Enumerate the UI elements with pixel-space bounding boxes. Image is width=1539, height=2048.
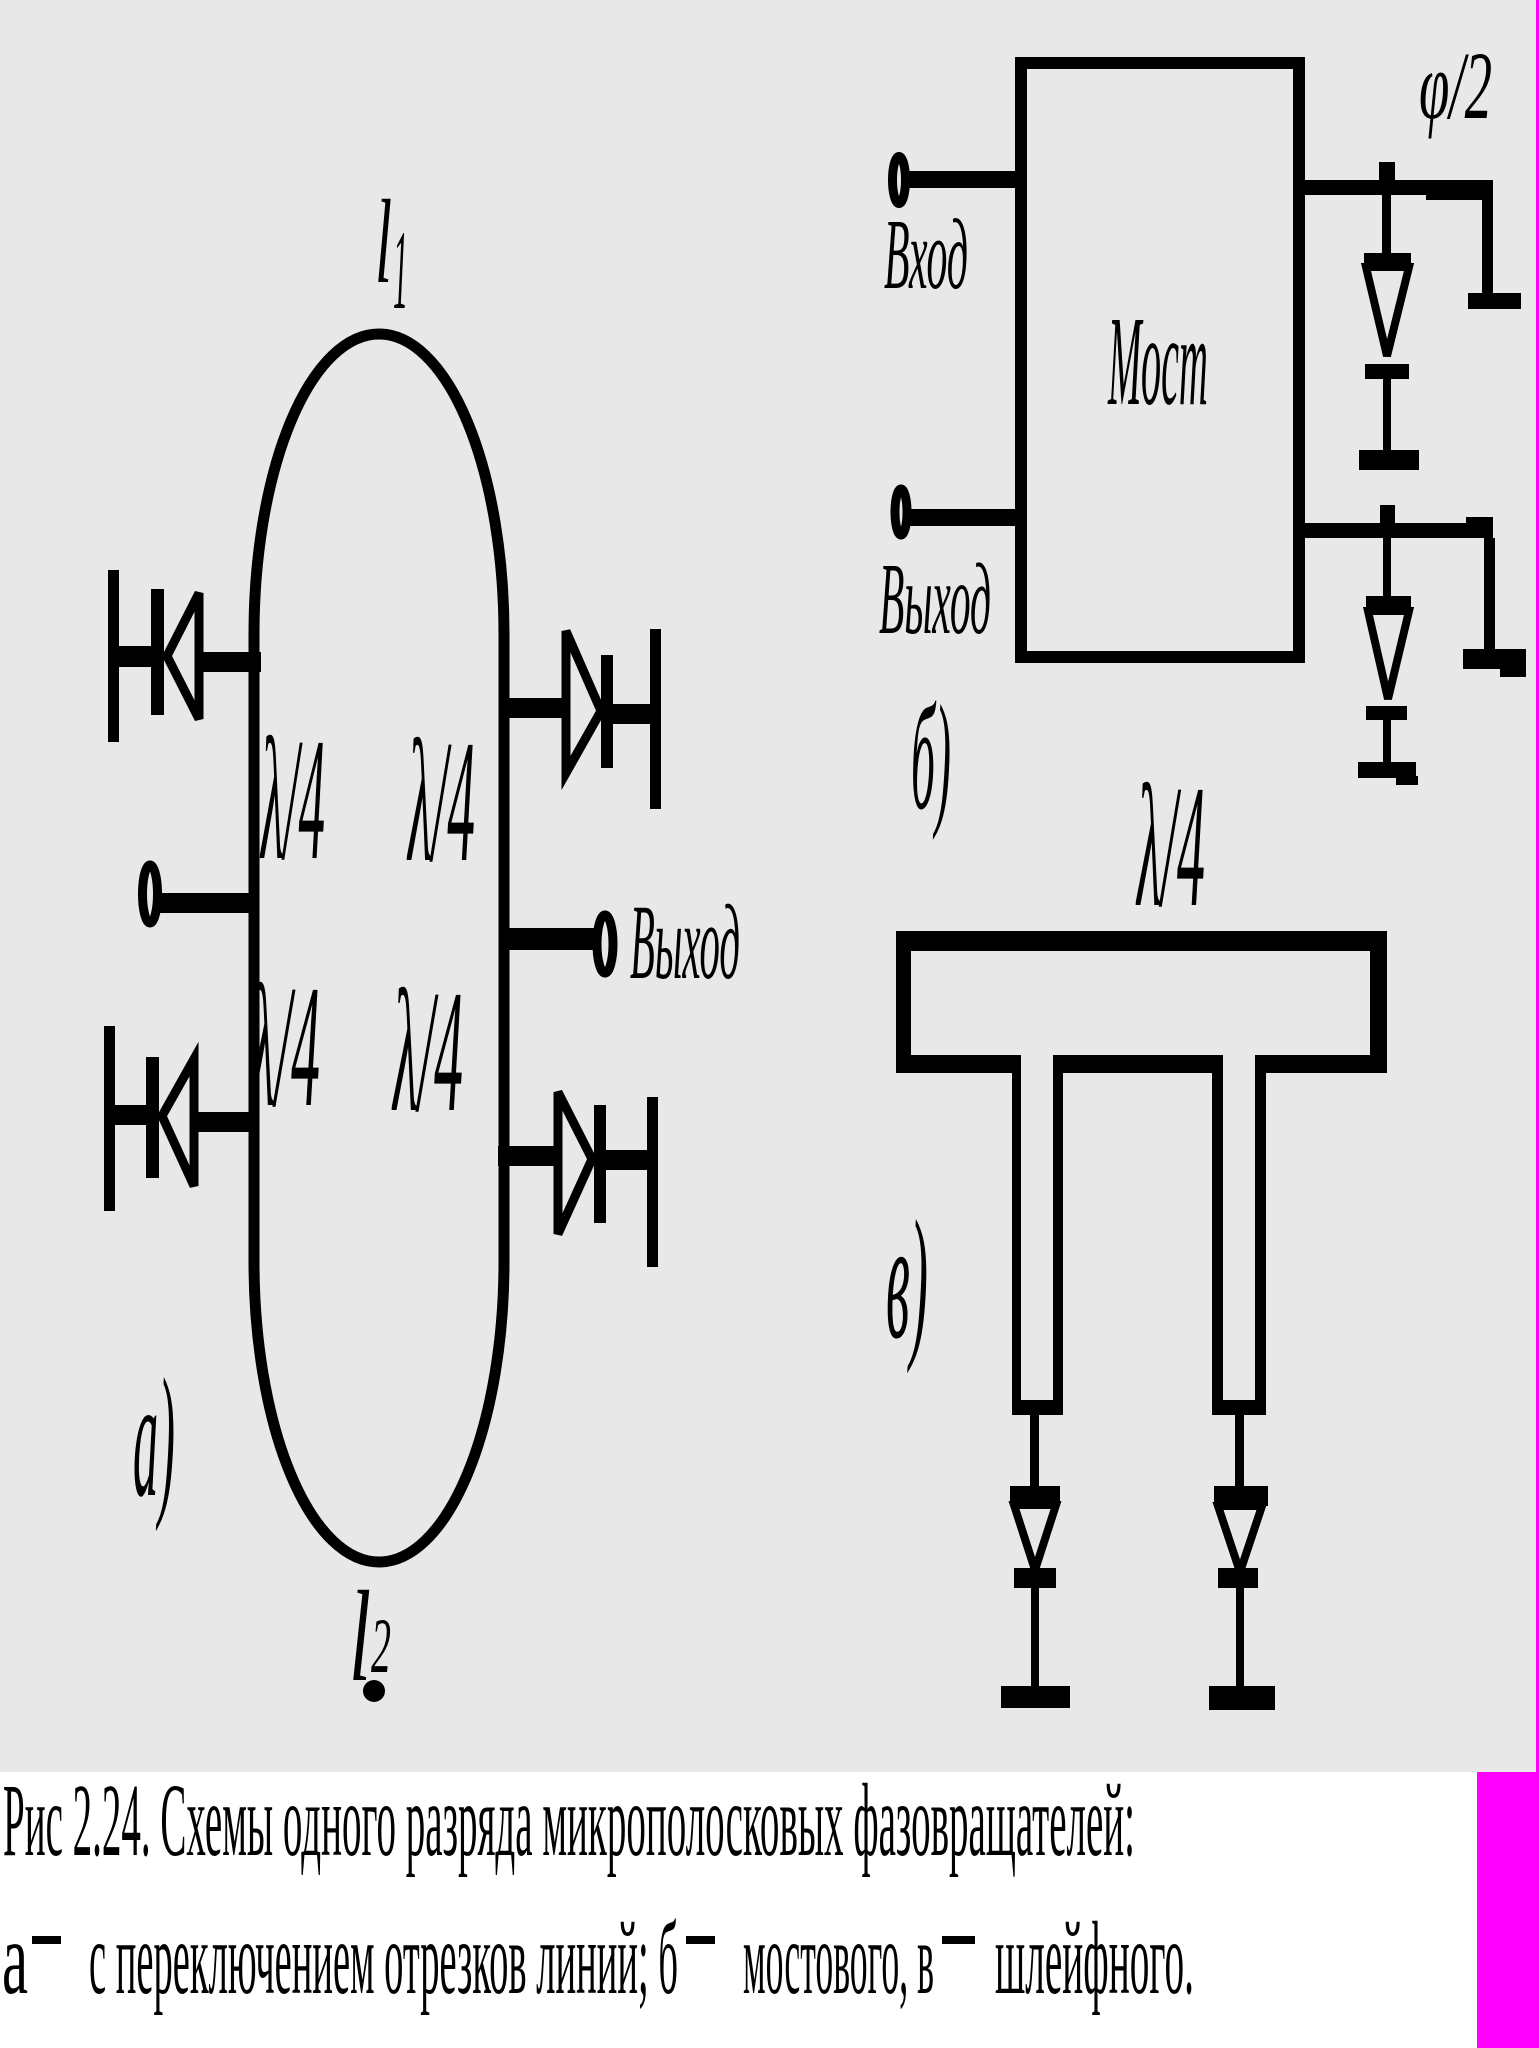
- caption line 2 part a: [2, 1901, 28, 2016]
- top branch wire right thick part: [1426, 181, 1493, 200]
- ground (top right): [1468, 293, 1521, 309]
- output wire (b): [909, 509, 1017, 526]
- svg-text:Вход: Вход: [884, 198, 968, 310]
- caption line 2 part b: [89, 1901, 678, 2016]
- diode VD3 cathode bar: [601, 655, 613, 768]
- svg-text:λ/4: λ/4: [259, 702, 325, 896]
- junction node (top): [1379, 162, 1395, 180]
- svg-text:2: 2: [371, 1602, 391, 1689]
- diode VD7 cathode bar: [1014, 1568, 1056, 1588]
- main microstrip line with two stubs (hollow): [896, 931, 1387, 1415]
- svg-text:Выход: Выход: [879, 543, 991, 656]
- svg-text:в): в): [886, 1186, 928, 1374]
- top branch wire: [1305, 180, 1493, 195]
- wire VD6 to ground: [1383, 720, 1391, 762]
- label l2: [349, 1565, 391, 1709]
- bottom right corner wire down: [1484, 538, 1495, 651]
- wire VD5 to ground: [1383, 379, 1391, 450]
- wire VD1 to ring: [199, 652, 261, 672]
- label lambda/4 lower-right: [391, 954, 463, 1148]
- ground (below VD5): [1359, 450, 1419, 470]
- svg-text:Выход: Выход: [630, 884, 740, 1002]
- diode VD2 cathode bar: [146, 1057, 159, 1178]
- diode VD7 anode bar: [1010, 1486, 1060, 1505]
- caption line 2 part d: [995, 1901, 1194, 2016]
- ground (below VD7): [1001, 1686, 1070, 1708]
- label b): [911, 675, 951, 841]
- wire ring to VD3 (upper right): [500, 698, 564, 718]
- diode VD1 (upper left) : terminal bar: [108, 570, 119, 742]
- label lambda/4 (v): [1135, 749, 1205, 943]
- bridge box: [1021, 63, 1299, 657]
- ground (below VD8): [1209, 1686, 1275, 1710]
- label lambda/4 lower-left: [248, 949, 320, 1143]
- diode VD8 triangle (points down): [1218, 1506, 1262, 1572]
- svg-text:λ/4: λ/4: [406, 704, 475, 898]
- wire VD3 cathode to terminal: [613, 704, 653, 724]
- diode VD2 (lower left) : terminal bar: [104, 1026, 115, 1211]
- diode VD3 triangle (points right): [566, 631, 601, 773]
- svg-text:λ/4: λ/4: [391, 954, 463, 1148]
- diode VD5 anode bar: [1364, 253, 1411, 267]
- input terminal circle (b): [893, 157, 906, 204]
- wire VD1 terminal to cathode: [112, 646, 158, 667]
- label lambda/4 upper-left: [259, 702, 325, 896]
- bottom branch corner block: [1466, 517, 1493, 538]
- diode VD4 cathode bar: [594, 1105, 606, 1223]
- wire junction to diode VD5: [1382, 195, 1391, 254]
- wire VD7 to ground: [1031, 1588, 1039, 1686]
- svg-text:l: l: [375, 175, 392, 308]
- svg-text:λ/4: λ/4: [1135, 749, 1205, 943]
- wire VD8 to ground: [1236, 1588, 1244, 1686]
- wire VD2 to ring: [194, 1112, 258, 1132]
- svg-text:1: 1: [393, 208, 408, 333]
- bottom branch wire: [1305, 523, 1491, 538]
- caption line 1: [3, 1763, 1135, 1878]
- junction node (bottom): [1380, 505, 1395, 523]
- diode VD3 terminal bar: [650, 629, 661, 809]
- top right corner wire down: [1482, 195, 1493, 293]
- caption dash 2: [686, 1936, 715, 1944]
- diode VD6 triangle (points down): [1368, 611, 1409, 699]
- label Vhod (b): [884, 198, 968, 310]
- microstrip ring (switched-line loop): [254, 334, 504, 1562]
- diode VD2 triangle (points left): [162, 1059, 194, 1186]
- diode VD8 cathode bar: [1218, 1568, 1258, 1588]
- wire VD4 cathode to terminal: [606, 1150, 650, 1170]
- svg-text:а): а): [133, 1344, 175, 1532]
- diode VD8 anode bar: [1214, 1486, 1268, 1506]
- svg-text:Рис 2.24. Схемы одного разряда: Рис 2.24. Схемы одного разряда микрополо…: [3, 1763, 1135, 1878]
- diode VD5 triangle (points down): [1366, 267, 1409, 356]
- input wire (b): [908, 171, 1016, 188]
- svg-text:φ/2: φ/2: [1419, 32, 1492, 139]
- svg-text:мостового, в: мостового, в: [743, 1901, 934, 2016]
- wire right stub to diode VD8: [1235, 1415, 1244, 1486]
- caption dash 1: [32, 1936, 61, 1944]
- output terminal circle (b): [895, 489, 907, 535]
- output terminal circle (a): [597, 915, 613, 973]
- svg-text:шлейфного.: шлейфного.: [995, 1901, 1194, 2016]
- input terminal circle (a): [143, 865, 158, 923]
- caption dash 3: [942, 1936, 975, 1944]
- wire junction to diode VD6: [1383, 538, 1391, 596]
- label Vyhod (b): [879, 543, 991, 656]
- diode VD4 terminal bar: [647, 1097, 658, 1267]
- diode VD5 cathode bar: [1365, 364, 1409, 379]
- svg-text:б): б): [911, 675, 951, 841]
- svg-text:а: а: [2, 1901, 28, 2016]
- wire VD2 terminal to cathode: [108, 1105, 152, 1125]
- ground (below VD6): [1358, 762, 1418, 785]
- magenta edge line: [1536, 0, 1539, 1772]
- magenta corner bar: [1477, 1772, 1539, 2048]
- diode VD7 triangle (points down): [1014, 1505, 1056, 1570]
- diode VD1 triangle (points left): [167, 593, 199, 719]
- diode VD1 cathode bar: [151, 589, 164, 715]
- svg-text:Мост: Мост: [1107, 290, 1208, 432]
- diode VD6 anode bar: [1366, 596, 1411, 611]
- label Most: [1107, 290, 1208, 432]
- label lambda/4 upper-right: [406, 704, 475, 898]
- input wire (a): [158, 893, 258, 913]
- label l1: [375, 175, 408, 333]
- diode VD4 triangle (points right): [558, 1092, 592, 1234]
- wire left stub to diode VD7: [1030, 1415, 1039, 1486]
- ground (bottom right): [1463, 649, 1526, 677]
- diode VD6 cathode bar: [1366, 706, 1407, 720]
- white caption strip: [0, 1772, 1539, 2048]
- label phi/2: [1419, 32, 1492, 139]
- label v): [886, 1186, 928, 1374]
- label a): [133, 1344, 175, 1532]
- output wire (a): [500, 928, 600, 950]
- svg-text:λ/4: λ/4: [248, 949, 320, 1143]
- svg-text:с переключением отрезков линий: с переключением отрезков линий; б: [89, 1901, 678, 2016]
- wire ring to VD4 (lower right): [498, 1146, 556, 1166]
- label Vyhod (a): [630, 884, 740, 1002]
- caption line 2 part c: [743, 1901, 934, 2016]
